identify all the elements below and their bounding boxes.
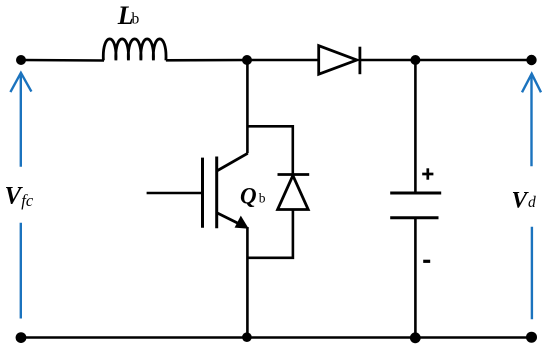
label - (capacitor polarity) bbox=[423, 260, 430, 263]
diode Df freewheel cathode bar bbox=[278, 173, 310, 176]
wire: collector drop from node A bbox=[246, 60, 249, 153]
svg-text:Q: Q bbox=[240, 183, 257, 208]
body bar bbox=[215, 157, 218, 229]
node B (top junction at capacitor) bbox=[410, 55, 420, 65]
capacitor C bottom plate bbox=[390, 216, 438, 219]
node: output - terminal (bottom-right dot) bbox=[526, 332, 537, 343]
wire: node B to output terminal bbox=[415, 59, 531, 62]
transistor Qb (IGBT) bbox=[147, 153, 249, 229]
wire: emitter to bottom rail bbox=[246, 227, 249, 338]
node: emitter junction on bottom rail bbox=[242, 332, 252, 342]
node: input + terminal (top-left dot) bbox=[16, 55, 26, 65]
gate bar bbox=[201, 158, 204, 228]
svg-text:V: V bbox=[512, 188, 530, 214]
capacitor C top plate bbox=[390, 192, 441, 195]
node: capacitor junction on bottom rail bbox=[410, 332, 421, 343]
wire: inductor to node A bbox=[166, 59, 247, 62]
node A (top junction at collector) bbox=[242, 55, 252, 65]
emitter diagonal bbox=[216, 213, 243, 226]
label + (capacitor polarity) bbox=[422, 168, 433, 179]
arrow Vfc (blue, pointing up) bbox=[10, 73, 31, 319]
wire: capacitor bottom plate to bottom rail bbox=[414, 218, 417, 338]
gate lead bbox=[147, 192, 203, 195]
svg-text:d: d bbox=[528, 194, 536, 211]
arrow Vd (blue, pointing up) bbox=[522, 74, 541, 319]
wire: node A to diode anode bbox=[247, 59, 319, 62]
node: output + terminal (top-right dot) bbox=[526, 55, 536, 65]
svg-text:fc: fc bbox=[21, 191, 34, 210]
wire bottom rail bbox=[21, 336, 532, 339]
emitter arrowhead bbox=[235, 216, 249, 229]
diode D cathode bar bbox=[358, 47, 361, 74]
wire: collector branch to freewheel diode bbox=[247, 126, 292, 174]
wire: diode cathode to node B bbox=[360, 59, 416, 62]
wire: freewheel diode anode to emitter bbox=[247, 210, 293, 258]
node: input - terminal (bottom-left dot) bbox=[16, 332, 27, 343]
diode D boost (triangle) bbox=[319, 46, 357, 74]
wire: node B to capacitor top plate bbox=[414, 60, 417, 193]
svg-text:b: b bbox=[259, 191, 266, 206]
svg-text:b: b bbox=[132, 11, 140, 28]
wire top rail: left terminal to inductor bbox=[21, 59, 104, 62]
collector diagonal bbox=[217, 153, 248, 171]
diode Df freewheel (triangle) bbox=[278, 176, 309, 210]
inductor Lb bbox=[103, 39, 166, 60]
